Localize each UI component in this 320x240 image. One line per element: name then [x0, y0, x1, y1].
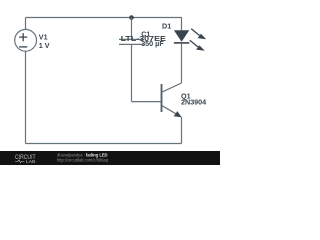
capacitor C1: [119, 39, 144, 44]
wire LED upper: [181, 17, 183, 30]
svg-text:2N3904: 2N3904: [181, 98, 206, 107]
wire LED to collector: [181, 43, 183, 83]
wire top rail: [26, 17, 182, 19]
svg-text:LAB: LAB: [26, 159, 36, 165]
LED D1: [174, 29, 206, 51]
wire capacitor upper: [131, 18, 133, 40]
footer watermark bar: [0, 151, 220, 165]
svg-text:1 V: 1 V: [39, 41, 50, 50]
svg-text:http://circuitlab.com/c/896aq: http://circuitlab.com/c/896aq: [57, 158, 109, 163]
svg-text:D1: D1: [162, 22, 171, 31]
wire left branch lower: [25, 51, 27, 143]
wire left branch upper: [25, 18, 27, 30]
wire emitter lower: [181, 117, 183, 144]
svg-text:LTL-307EE: LTL-307EE: [121, 34, 167, 43]
label Q1: [181, 91, 206, 106]
transistor Q1: [162, 83, 182, 117]
wire capacitor lower: [131, 44, 133, 101]
label C1: [141, 30, 164, 48]
node junction dot: [129, 15, 134, 20]
label V1 value: [39, 32, 50, 50]
wire base lead: [132, 101, 161, 103]
wire bottom rail: [26, 143, 182, 145]
voltage source V1: [15, 29, 37, 51]
